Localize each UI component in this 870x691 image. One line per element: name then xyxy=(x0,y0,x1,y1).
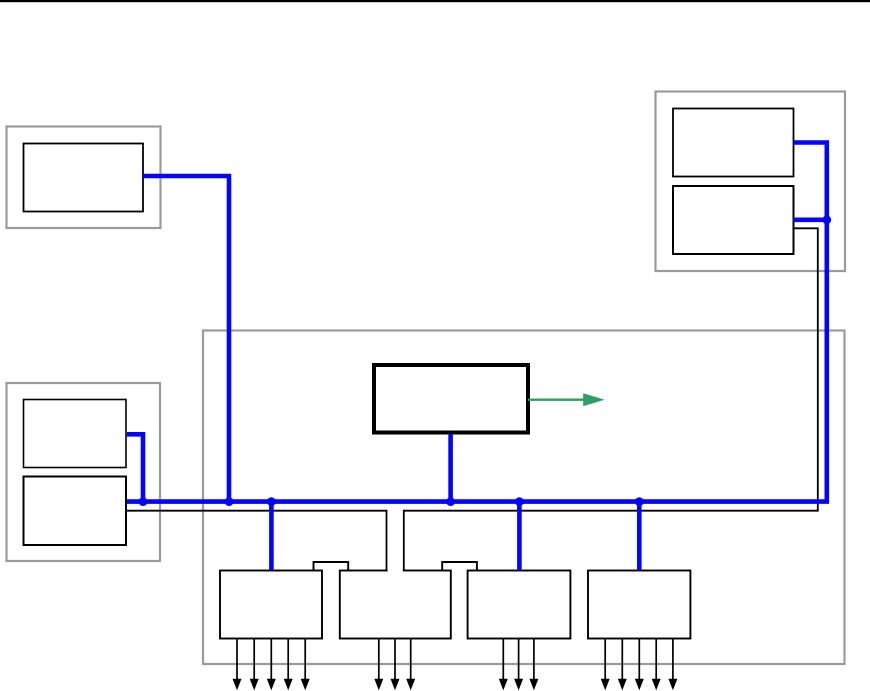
junction dot: controller tap xyxy=(446,497,455,506)
junction dot: slave 3 tap xyxy=(515,497,524,506)
green arrow out of controller xyxy=(528,393,605,406)
group box: middle-left device (gray container) xyxy=(7,383,161,561)
group box: main system (large gray container) xyxy=(203,331,845,665)
group box: top-right device (gray container) xyxy=(656,92,846,272)
tab between slave box 2 and 3 xyxy=(442,562,477,571)
wire: blue bus drop to slave box 1 xyxy=(269,502,274,571)
output arrows under slave box 3 xyxy=(499,639,539,691)
output arrows under slave box 2 xyxy=(374,639,415,691)
block: middle-left node C xyxy=(24,400,127,468)
block: slave box 1 xyxy=(220,571,322,639)
group box: top-left device (gray container) xyxy=(7,127,161,229)
block: controller (thick border) xyxy=(374,365,528,433)
block: top-left node xyxy=(24,144,144,212)
wire: blue from node C down to bus xyxy=(127,434,143,501)
wire: blue bus drop to slave box 4 xyxy=(637,502,642,571)
junction dot: slave 1 tap xyxy=(267,497,276,506)
block: top-right node A xyxy=(673,109,794,177)
wire: blue from controller down to bus xyxy=(448,434,453,502)
wire: blue from node B to riser xyxy=(794,218,827,223)
wire: black signal from slave box 2 to node B xyxy=(404,228,818,570)
junction dot: slave 4 tap xyxy=(635,497,644,506)
output arrows under slave box 1 xyxy=(233,639,310,691)
block: top-right node B xyxy=(673,186,794,254)
tab between slave box 1 and 2 xyxy=(314,562,349,571)
wire: blue bus main line with right riser to node A xyxy=(127,143,827,502)
gap in slave box 2 top edge xyxy=(388,569,403,573)
block: slave box 3 xyxy=(468,571,571,639)
junction dot: node C tap xyxy=(139,497,148,506)
wire: blue from top-left node down to bus xyxy=(143,176,229,502)
block: slave box 4 xyxy=(588,571,690,639)
output arrows under slave box 4 xyxy=(601,639,678,691)
block: slave box 2 xyxy=(340,571,451,639)
junction dot: top-left tap xyxy=(225,497,234,506)
wire: blue bus drop to slave box 3 xyxy=(517,502,522,571)
junction dot: node B tap on riser xyxy=(822,215,831,224)
wire: black signal from node D to slave box 2 xyxy=(127,511,387,570)
block: middle-left node D xyxy=(24,477,127,546)
